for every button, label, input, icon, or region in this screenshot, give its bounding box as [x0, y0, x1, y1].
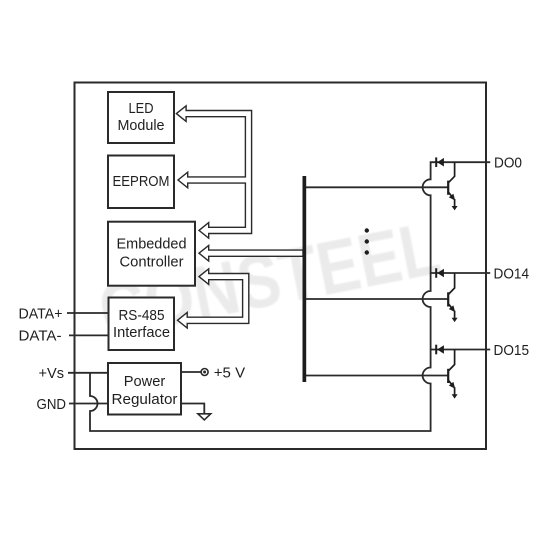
outer border frame [75, 83, 487, 450]
wire base DO15 [306, 375, 448, 377]
hollow arrow: Embedded Controller to RS-485 Interface (double headed) [178, 269, 249, 328]
block EEPROM [108, 156, 174, 209]
diode D3 [435, 345, 437, 355]
wire DATA+ [67, 312, 109, 314]
svg-text:DO15: DO15 [494, 342, 530, 359]
svg-text:DATA+: DATA+ [19, 305, 63, 322]
svg-text:DO14: DO14 [494, 265, 530, 282]
svg-text:Power: Power [124, 373, 166, 390]
diode D1 [435, 157, 437, 167]
svg-text:+Vs: +Vs [39, 365, 65, 382]
transistor Q1 [447, 181, 449, 195]
wire Power Regulator to ground [181, 404, 204, 414]
svg-text:DO0: DO0 [494, 155, 522, 172]
transistor Q3 [447, 369, 449, 383]
transistor Q2 [447, 292, 449, 306]
hollow arrow: output bus to Embedded Controller [199, 245, 303, 261]
svg-text:LED: LED [129, 100, 154, 117]
svg-text:Interface: Interface [113, 324, 170, 341]
vertical ellipsis dots [365, 228, 369, 232]
ground symbol (open arrow) [198, 414, 211, 420]
svg-text:Module: Module [118, 117, 165, 134]
bus bar (isolation output bus) [303, 176, 307, 382]
wire +5V output of Power Regulator [181, 371, 201, 373]
svg-text:Controller: Controller [120, 253, 184, 270]
svg-text:DATA-: DATA- [19, 328, 62, 345]
wire collector rail DO14 [431, 272, 491, 274]
svg-text:+5 V: +5 V [214, 364, 245, 381]
block Embedded Controller U1 [108, 222, 195, 286]
wire DATA- [69, 334, 109, 336]
terminal +5V [201, 369, 208, 376]
wire GND [69, 403, 108, 405]
svg-text:Embedded: Embedded [117, 235, 187, 252]
block LED Module [108, 92, 174, 143]
block RS-485 Interface [109, 298, 175, 351]
block Power Regulator [108, 363, 181, 415]
svg-text:GND: GND [37, 396, 67, 413]
diode D2 [435, 268, 437, 278]
wire collector rail DO15 [431, 349, 491, 351]
wire +Vs [68, 372, 108, 374]
svg-text:Regulator: Regulator [112, 391, 178, 408]
wire base DO0 [306, 186, 448, 188]
wire base DO14 [306, 298, 448, 300]
svg-text:EEPROM: EEPROM [113, 173, 170, 190]
svg-text:RS-485: RS-485 [119, 307, 165, 324]
hollow arrow bus: controller to LED Module and EEPROM [176, 106, 251, 238]
wire +Vs branch with hop over GND, bottom return line to output stage [90, 162, 490, 431]
